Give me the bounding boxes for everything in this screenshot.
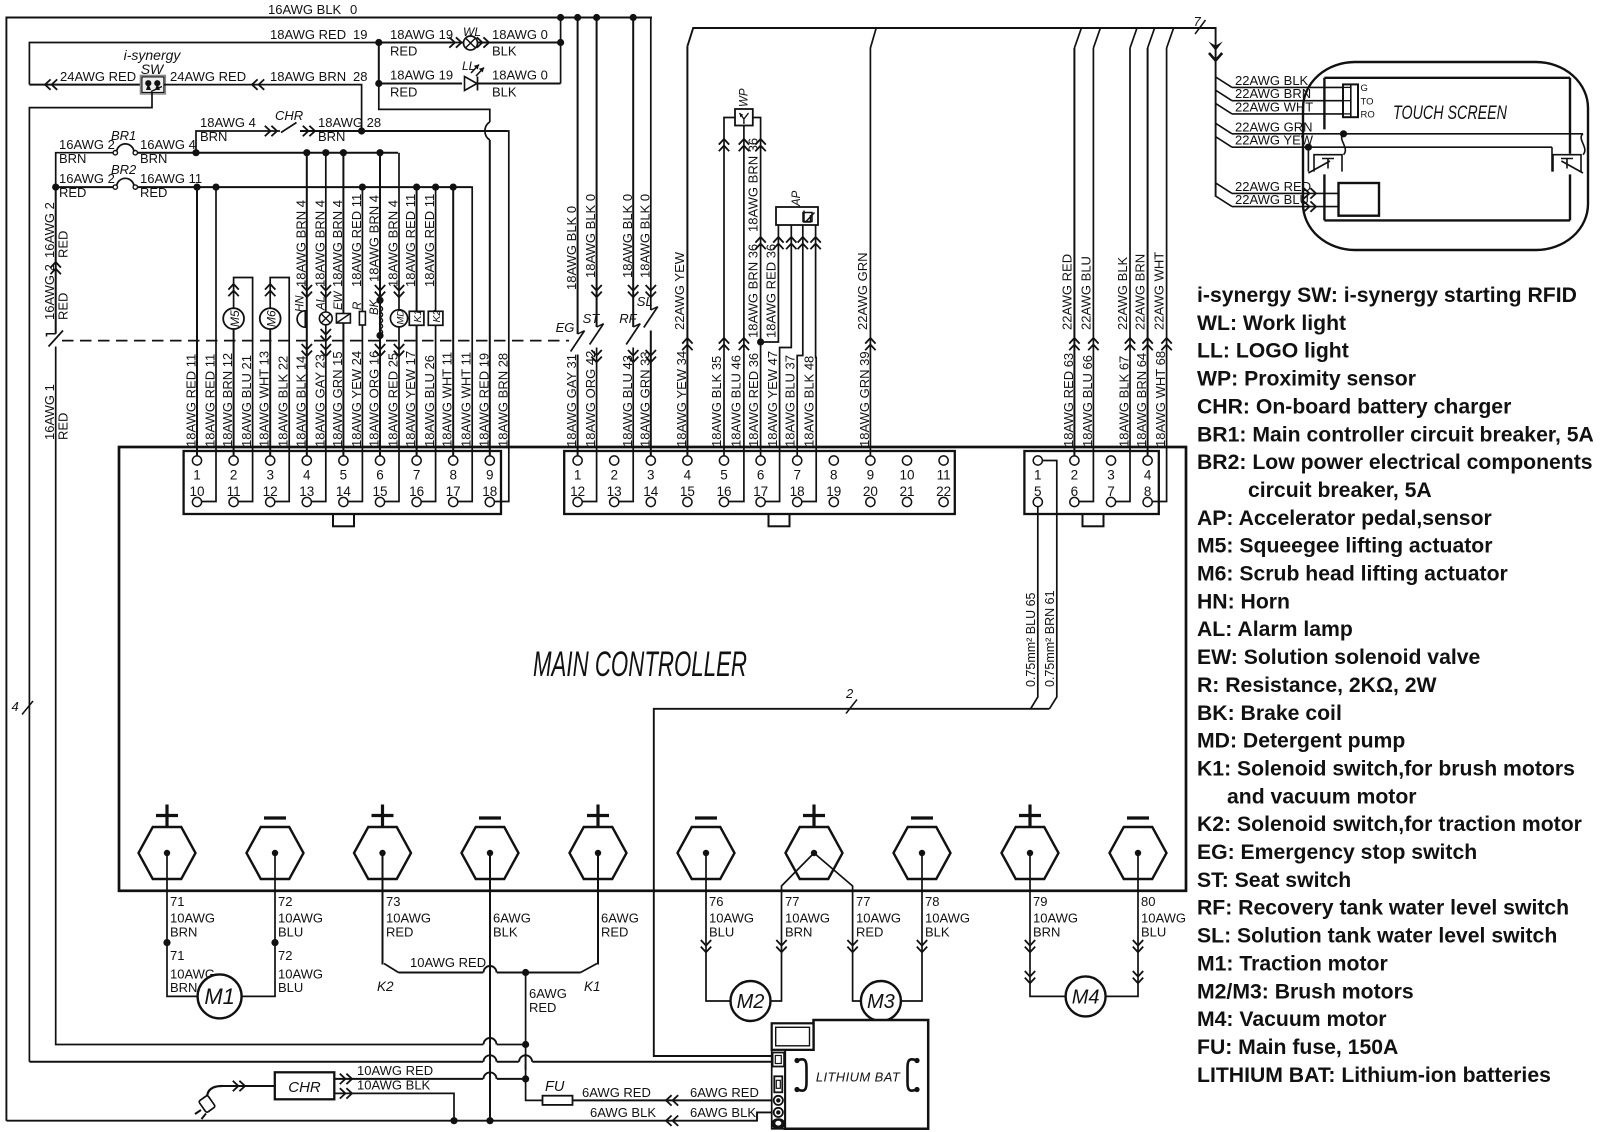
svg-text:6: 6: [757, 468, 765, 483]
pin 6: [1070, 497, 1079, 506]
resistor R on pin14 wire: [348, 187, 362, 501]
pin 14: [646, 497, 655, 506]
wire from SW bottom to battery terminal (long return): [29, 93, 152, 1062]
svg-text:R: R: [352, 302, 364, 310]
svg-text:18AWG GRN 33: 18AWG GRN 33: [638, 351, 653, 447]
power terminal hexagon minus at x=490: [462, 827, 519, 879]
wire 22AWG RED branch to touch screen: [1216, 183, 1232, 194]
svg-text:18AWG BLK 14: 18AWG BLK 14: [293, 356, 308, 447]
svg-text:18AWG RED 11: 18AWG RED 11: [349, 194, 364, 287]
svg-text:18AWG YEW 24: 18AWG YEW 24: [349, 351, 364, 447]
wire 18AWG BLU 46 (WP middle leg to pin16): [729, 126, 744, 502]
circuit breaker BR1: [117, 144, 135, 153]
alarm lamp AL on pin13 wire: [311, 153, 325, 502]
svg-text:CHR: CHR: [288, 1079, 321, 1096]
svg-text:6AWG BLK: 6AWG BLK: [690, 1105, 756, 1120]
svg-text:10AWG: 10AWG: [925, 911, 970, 926]
svg-text:RED: RED: [386, 925, 413, 940]
svg-text:BRN: BRN: [1033, 925, 1060, 940]
svg-text:19: 19: [826, 484, 841, 499]
svg-text:0: 0: [350, 2, 357, 17]
svg-text:TO: TO: [1361, 97, 1374, 108]
wire 77 10AWG RED (hex7 to M3): [814, 853, 861, 1001]
pin 6: [756, 456, 765, 465]
svg-text:18AWG BRN 4: 18AWG BRN 4: [367, 195, 382, 282]
pin 4: [1143, 456, 1152, 465]
svg-text:5: 5: [720, 468, 728, 483]
svg-text:ST: Seat switch: ST: Seat switch: [1197, 869, 1351, 892]
svg-text:10AWG: 10AWG: [1141, 911, 1186, 926]
pin 15: [683, 497, 692, 506]
wire 10AWG BLK (CHR to BLK bus): [334, 1093, 454, 1120]
wire 16AWG 1 RED (to solenoid node): [56, 347, 526, 1045]
wire 18AWG RED 11 (BR2 to pin1): [196, 187, 198, 456]
wire 80 10AWG BLU (hex10 to M4): [1105, 853, 1138, 996]
solenoid switch K2 on pin16 wire: [421, 187, 435, 501]
svg-text:7: 7: [413, 468, 421, 483]
power terminal hexagon plus at x=1030: [1002, 827, 1059, 879]
svg-text:M6: Scrub head lifting actuato: M6: Scrub head lifting actuator: [1197, 563, 1508, 586]
svg-text:10: 10: [189, 484, 204, 499]
svg-text:18AWG ORG 16: 18AWG ORG 16: [367, 351, 382, 447]
pin 3: [1106, 456, 1115, 465]
wire 6AWG RED (fuse to battery): [573, 1099, 774, 1101]
sensor WP (proximity): [735, 109, 753, 126]
svg-text:22AWG BRN: 22AWG BRN: [1133, 254, 1148, 330]
svg-text:BLK: BLK: [492, 85, 517, 100]
lamp WL (work light): [464, 36, 478, 50]
junction dot RED 36 branch: [757, 338, 764, 345]
wire 0.75mm2 BLU 65 (pin5 down): [1031, 507, 1038, 709]
svg-text:K2: Solenoid switch,for tracti: K2: Solenoid switch,for traction motor: [1197, 813, 1582, 836]
svg-text:22AWG BLU: 22AWG BLU: [1235, 192, 1309, 207]
svg-text:RED: RED: [390, 85, 417, 100]
pin 4: [683, 456, 692, 465]
svg-text:18AWG BLK 48: 18AWG BLK 48: [802, 356, 817, 447]
svg-text:EW: EW: [333, 290, 345, 310]
svg-text:15: 15: [680, 484, 695, 499]
svg-text:BR1: Main controller circuit b: BR1: Main controller circuit breaker, 5A: [1197, 423, 1594, 446]
svg-text:RED: RED: [601, 925, 628, 940]
wire 72 10AWG BLU (hex2 to M1): [242, 853, 276, 996]
svg-text:18AWG WHT 11: 18AWG WHT 11: [459, 352, 474, 447]
svg-text:18AWG GAY 23: 18AWG GAY 23: [312, 354, 327, 447]
pin 13: [302, 497, 311, 506]
svg-text:11: 11: [937, 468, 951, 483]
svg-text:15: 15: [372, 484, 387, 499]
svg-text:12: 12: [263, 484, 278, 499]
pin 11: [229, 497, 238, 506]
svg-text:18AWG 28: 18AWG 28: [318, 115, 381, 130]
svg-text:18AWG RED 11: 18AWG RED 11: [422, 194, 437, 287]
svg-text:79: 79: [1033, 894, 1047, 909]
svg-text:21: 21: [899, 484, 914, 499]
pin 11: [939, 456, 948, 465]
battery BMS box: [772, 1023, 814, 1050]
svg-text:LITHIUM BAT: LITHIUM BAT: [816, 1070, 901, 1085]
power terminal hexagon minus at x=706: [678, 827, 735, 879]
svg-text:18AWG BRN: 18AWG BRN: [270, 69, 346, 84]
svg-text:24AWG RED: 24AWG RED: [60, 69, 136, 84]
svg-text:BRN: BRN: [140, 151, 167, 166]
svg-text:7: 7: [1107, 484, 1115, 499]
switch ST (seat switch) on pin12 wire: [596, 18, 598, 328]
pin 18: [793, 497, 802, 506]
power terminal hexagon minus at x=275: [247, 827, 304, 879]
svg-text:18AWG 4: 18AWG 4: [200, 115, 256, 130]
wire 22AWG YEW (bus to pin4): [686, 46, 688, 456]
svg-text:BLU: BLU: [1141, 925, 1166, 940]
svg-text:0.75mm² BRN 61: 0.75mm² BRN 61: [1043, 590, 1057, 687]
wire 18AWG BLU 37 (AP leg 3 to pin7): [797, 225, 803, 456]
svg-text:19: 19: [353, 27, 367, 42]
svg-text:18AWG RED 19: 18AWG RED 19: [476, 353, 491, 447]
svg-text:22: 22: [936, 484, 951, 499]
svg-text:2: 2: [610, 468, 618, 483]
pin 5: [719, 456, 728, 465]
pin 5: [1033, 497, 1042, 506]
brake coil BK on pin6 wire: [379, 153, 381, 456]
svg-text:BLU: BLU: [278, 980, 303, 995]
svg-text:18AWG BLK 0: 18AWG BLK 0: [583, 194, 598, 278]
svg-text:circuit breaker, 5A: circuit breaker, 5A: [1248, 479, 1432, 502]
svg-text:RED: RED: [856, 925, 883, 940]
svg-text:BR2: Low power electrical comp: BR2: Low power electrical components: [1197, 451, 1593, 474]
sensor AP (accelerator pedal): [776, 207, 818, 225]
pin 21: [902, 497, 911, 506]
GRN link into right T-switch: [1581, 134, 1585, 155]
svg-text:18AWG 0: 18AWG 0: [492, 68, 548, 83]
svg-text:9: 9: [486, 468, 494, 483]
svg-text:RED: RED: [56, 413, 71, 440]
svg-text:i-synergy SW: i-synergy starti: i-synergy SW: i-synergy starting RFID: [1197, 284, 1577, 307]
svg-text:K2: K2: [377, 979, 394, 994]
BLK bus to battery terminal: [6, 1112, 772, 1120]
svg-text:BRN: BRN: [170, 980, 197, 995]
svg-text:18: 18: [790, 484, 805, 499]
svg-text:HN: Horn: HN: Horn: [1197, 590, 1290, 613]
svg-text:13: 13: [299, 484, 314, 499]
svg-text:72: 72: [278, 948, 292, 963]
svg-text:MD: MD: [395, 310, 406, 325]
svg-text:20: 20: [863, 484, 878, 499]
svg-text:22AWG WHT: 22AWG WHT: [1235, 99, 1313, 114]
wire 18AWG 0 BLK from LL: [478, 83, 561, 85]
svg-text:TOUCH SCREEN: TOUCH SCREEN: [1393, 102, 1508, 124]
wire 18AWG BRN 12 (M5 to pin2): [233, 329, 235, 456]
pin 18: [485, 497, 494, 506]
pin 8: [829, 456, 838, 465]
svg-text:6AWG: 6AWG: [601, 911, 639, 926]
svg-text:2: 2: [1071, 468, 1079, 483]
pin 14: [339, 497, 348, 506]
wire 71 10AWG BRN (hex1 to M1): [167, 853, 198, 996]
battery ground stud: [771, 1118, 785, 1129]
junction dots on battery BLK bus: [450, 1117, 457, 1124]
svg-text:18AWG BRN 36: 18AWG BRN 36: [746, 244, 761, 338]
bundle mark 4/ on SW return wire: [22, 701, 33, 715]
wire 10AWG RED (CHR to RED node): [334, 1078, 525, 1080]
svg-text:8: 8: [1144, 484, 1152, 499]
arrows on 22AWG RED/BLU branches: [1304, 188, 1316, 198]
motor M1 (traction): [198, 974, 242, 1018]
pin 1: [1033, 456, 1042, 465]
svg-text:M2/M3: Brush motors: M2/M3: Brush motors: [1197, 980, 1414, 1003]
svg-text:16AWG 2: 16AWG 2: [59, 171, 115, 186]
pin 22: [939, 497, 948, 506]
svg-text:7: 7: [793, 468, 801, 483]
svg-text:LL: LOGO light: LL: LOGO light: [1197, 340, 1349, 363]
svg-text:10AWG: 10AWG: [386, 911, 431, 926]
svg-text:R: Resistance, 2KΩ, 2W: R: Resistance, 2KΩ, 2W: [1197, 674, 1437, 697]
wire 22AWG YEW branch to touch screen: [1216, 137, 1232, 148]
power terminal hexagon plus at x=598: [570, 827, 627, 879]
T-switch right (touch sensor): [1553, 155, 1581, 172]
display connector box in touch screen: [1339, 183, 1380, 216]
svg-text:18AWG RED 11: 18AWG RED 11: [403, 194, 418, 287]
wire 22AWG WHT (bus to connector C): [1167, 28, 1174, 48]
switch K1 (brush/vacuum solenoid contact): [581, 964, 598, 973]
svg-text:RED: RED: [56, 231, 71, 258]
bundle mark 2/: [846, 700, 857, 714]
svg-text:8: 8: [830, 468, 838, 483]
battery terminal 1 (signal): [773, 1053, 785, 1067]
wire 76 10AWG BLU (hex6 to M2): [706, 853, 731, 1001]
power terminal hexagon plus at x=814: [786, 827, 843, 879]
svg-text:18AWG BLK 0: 18AWG BLK 0: [637, 194, 652, 278]
svg-text:SL: SL: [637, 294, 653, 309]
svg-text:3: 3: [647, 468, 655, 483]
svg-text:18AWG BLK 0: 18AWG BLK 0: [620, 194, 635, 278]
svg-text:10AWG BLK: 10AWG BLK: [357, 1078, 431, 1093]
svg-text:7: 7: [1194, 14, 1202, 29]
svg-text:BK: Brake coil: BK: Brake coil: [1197, 702, 1342, 725]
svg-text:FU: Main fuse, 150A: FU: Main fuse, 150A: [1197, 1036, 1398, 1059]
svg-text:10AWG: 10AWG: [170, 911, 215, 926]
svg-text:RED: RED: [529, 1000, 556, 1015]
svg-text:ST: ST: [583, 311, 601, 326]
pin 3: [646, 456, 655, 465]
svg-text:22AWG BLU: 22AWG BLU: [1078, 256, 1093, 330]
wire 18AWG RED 36 (AP leg 1, from RED36 junction): [761, 225, 779, 342]
svg-text:71: 71: [170, 948, 184, 963]
svg-text:18AWG BLK 22: 18AWG BLK 22: [276, 356, 291, 447]
svg-text:AL: AL: [316, 296, 328, 311]
svg-text:FU: FU: [545, 1079, 565, 1095]
svg-text:BLK: BLK: [493, 925, 518, 940]
svg-text:CHR: CHR: [275, 108, 303, 123]
wire 6AWG BLK (hex4 down to battery bus): [489, 853, 491, 1121]
svg-text:SW: SW: [141, 61, 165, 77]
wire 18AWG WHT 13 (M6 to pin3): [269, 329, 271, 456]
connector body pins 1-22: [564, 451, 955, 514]
pin 7: [412, 456, 421, 465]
wire 16AWG BLK 0 top bus + left border return: [6, 18, 652, 1121]
switch i-synergy SW: [140, 75, 165, 94]
svg-text:16AWG BLK: 16AWG BLK: [268, 2, 342, 17]
pin 10: [902, 456, 911, 465]
svg-text:14: 14: [643, 484, 659, 499]
svg-text:G: G: [1361, 83, 1368, 94]
svg-text:WL: WL: [463, 25, 481, 39]
pin 20: [866, 497, 875, 506]
svg-text:RO: RO: [1361, 110, 1375, 121]
svg-text:2: 2: [845, 686, 854, 701]
svg-text:18AWG BLU 26: 18AWG BLU 26: [422, 355, 437, 447]
battery LITHIUM BAT body: [785, 1020, 928, 1129]
switch RF (recovery tank level) on pin13 wire: [632, 18, 634, 328]
svg-text:10: 10: [899, 468, 914, 483]
svg-text:6AWG RED: 6AWG RED: [690, 1085, 759, 1100]
wire 18AWG BLK 35 (WP left leg to pin5): [724, 118, 735, 457]
svg-text:6AWG: 6AWG: [529, 986, 567, 1001]
svg-text:18AWG WHT 11: 18AWG WHT 11: [440, 352, 455, 447]
svg-text:17: 17: [446, 484, 461, 499]
svg-text:11: 11: [227, 484, 241, 499]
svg-text:18AWG BLK 0: 18AWG BLK 0: [564, 206, 579, 290]
svg-text:18AWG RED 63: 18AWG RED 63: [1061, 353, 1076, 447]
wire 22AWG BLK branch to touch screen: [1216, 77, 1232, 88]
svg-text:22AWG WHT: 22AWG WHT: [1152, 252, 1167, 330]
switch SL (solution tank level) on pin3 wire: [651, 18, 652, 311]
switch E (key/battery disconnect): [47, 334, 56, 337]
svg-text:18AWG GAY 31: 18AWG GAY 31: [564, 354, 579, 447]
svg-text:1: 1: [1034, 468, 1042, 483]
svg-text:18AWG WHT 13: 18AWG WHT 13: [257, 351, 272, 447]
pin 7: [793, 456, 802, 465]
touch screen module frame: [1324, 77, 1570, 79]
svg-text:18AWG BRN 4: 18AWG BRN 4: [293, 200, 308, 287]
wire 22AWG GRN branch to touch screen: [1216, 123, 1232, 134]
wire 18AWG WHT 11 (BR2 to pin17): [458, 187, 472, 501]
battery terminal RED stud: [774, 1096, 783, 1105]
svg-text:28: 28: [353, 69, 367, 84]
svg-text:K1: K1: [584, 979, 601, 994]
svg-text:18AWG WHT 68: 18AWG WHT 68: [1153, 351, 1168, 447]
svg-text:EG: Emergency stop switch: EG: Emergency stop switch: [1197, 841, 1477, 864]
wire 18AWG YEW 47 (AP leg 2 to pin17): [765, 225, 792, 502]
wire 16AWG 2 BRN (left of BR1): [56, 153, 114, 187]
wire 79 10AWG BRN (hex9 to M4): [1030, 853, 1066, 996]
wire 18AWG BRN 36 / 18AWG RED 36 (WP right leg to pin6): [753, 118, 761, 457]
svg-text:18AWG RED 11: 18AWG RED 11: [203, 354, 218, 447]
svg-text:18AWG RED 25: 18AWG RED 25: [386, 353, 401, 447]
svg-text:18AWG BLK 35: 18AWG BLK 35: [709, 356, 724, 447]
motor M3 (brush): [861, 981, 901, 1021]
wire 22AWG BLK (bus to connector C): [1130, 28, 1137, 48]
svg-text:10AWG: 10AWG: [1033, 911, 1078, 926]
svg-text:77: 77: [856, 894, 870, 909]
svg-text:10AWG: 10AWG: [709, 911, 754, 926]
svg-text:3: 3: [1107, 468, 1115, 483]
battery handle left: [798, 1059, 807, 1090]
svg-text:BRN: BRN: [170, 925, 197, 940]
svg-text:16AWG 11: 16AWG 11: [140, 171, 202, 186]
wire 22AWG GRN (bus to pin9): [870, 28, 876, 456]
svg-text:18AWG RED 36: 18AWG RED 36: [746, 353, 761, 447]
svg-text:K1: K1: [412, 310, 424, 323]
svg-text:18: 18: [482, 484, 497, 499]
svg-text:4: 4: [684, 468, 692, 483]
svg-text:18AWG BRN 64: 18AWG BRN 64: [1134, 353, 1149, 447]
svg-text:1: 1: [193, 468, 201, 483]
svg-text:M4: Vacuum motor: M4: Vacuum motor: [1197, 1008, 1387, 1031]
pin 5: [339, 456, 348, 465]
svg-text:18AWG RED 11: 18AWG RED 11: [184, 354, 199, 447]
svg-text:18AWG BLU 21: 18AWG BLU 21: [239, 355, 254, 447]
YEW drop into right T-switch: [1551, 147, 1553, 171]
wire 2-bundle to battery terminal 1: [654, 709, 1050, 1056]
wire 22AWG BRN branch to touch screen: [1216, 90, 1232, 101]
power terminal hexagon plus at x=167: [139, 827, 196, 879]
svg-text:BRN: BRN: [785, 925, 812, 940]
pin 4: [302, 456, 311, 465]
svg-text:EG: EG: [556, 320, 575, 335]
svg-text:18AWG 0: 18AWG 0: [492, 27, 548, 42]
svg-text:72: 72: [278, 894, 292, 909]
svg-text:K2: K2: [431, 309, 443, 322]
svg-text:18AWG YEW 34: 18AWG YEW 34: [674, 351, 689, 447]
svg-text:22AWG GRN: 22AWG GRN: [855, 252, 870, 330]
svg-text:HN: HN: [295, 295, 307, 312]
pin 12: [573, 497, 582, 506]
node GRN junction + link into left T-switch: [1340, 130, 1347, 137]
svg-text:5: 5: [1034, 484, 1042, 499]
T-switch left (touch sensor): [1314, 155, 1342, 172]
svg-text:10AWG: 10AWG: [856, 911, 901, 926]
svg-text:18AWG 19: 18AWG 19: [390, 27, 453, 42]
wire 18AWG 19 RED feed to WL: [379, 42, 452, 44]
svg-text:6AWG: 6AWG: [493, 911, 531, 926]
svg-text:18AWG BRN 4: 18AWG BRN 4: [386, 200, 401, 287]
wire 77 10AWG BRN (hex7 to M2): [770, 853, 814, 1001]
pin 6: [375, 456, 384, 465]
svg-text:LITHIUM BAT: Lithium-ion batte: LITHIUM BAT: Lithium-ion batteries: [1197, 1064, 1551, 1087]
pin 10: [192, 497, 201, 506]
battery handle right: [908, 1059, 917, 1090]
svg-text:4: 4: [303, 468, 311, 483]
charger CHR (on-board): [275, 1072, 335, 1099]
svg-text:M6: M6: [264, 310, 278, 327]
wire SW return to battery terminal 1: [29, 1061, 774, 1063]
pin 8: [449, 456, 458, 465]
svg-text:RED: RED: [59, 185, 86, 200]
svg-text:17: 17: [753, 484, 768, 499]
svg-text:24AWG RED: 24AWG RED: [170, 69, 246, 84]
svg-text:RED: RED: [140, 185, 167, 200]
wire 18AWG RED 11 (BR2 to pin10): [202, 187, 216, 501]
wire 22AWG WHT branch to touch screen: [1216, 103, 1232, 114]
svg-text:16: 16: [716, 484, 731, 499]
main controller box: [119, 447, 1186, 891]
pin 17: [756, 497, 765, 506]
pin 9: [485, 456, 494, 465]
svg-text:18AWG BRN 4: 18AWG BRN 4: [312, 200, 327, 287]
switch K2 (traction solenoid contact): [384, 964, 399, 973]
wire hops over 6AWG verticals: [483, 1043, 497, 1047]
svg-text:18AWG BLU 43: 18AWG BLU 43: [620, 355, 635, 447]
svg-text:LL: LL: [462, 59, 475, 73]
touch screen outer housing: [1303, 62, 1588, 250]
wire 22AWG BRN (bus to connector C): [1148, 28, 1155, 48]
pin 2: [1070, 456, 1079, 465]
LED LL (logo light): [465, 77, 478, 91]
battery terminal strip: [772, 1050, 785, 1129]
svg-text:4: 4: [1144, 468, 1152, 483]
svg-text:22AWG YEW: 22AWG YEW: [672, 251, 687, 330]
svg-text:18AWG 19: 18AWG 19: [390, 68, 453, 83]
svg-text:18AWG BRN 12: 18AWG BRN 12: [220, 353, 235, 447]
